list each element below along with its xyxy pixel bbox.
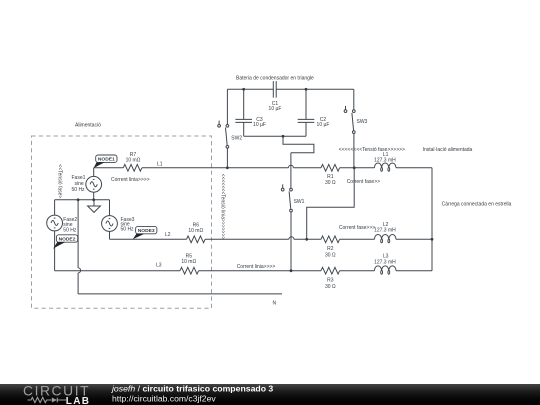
svg-text:10 mΩ: 10 mΩ bbox=[188, 228, 203, 234]
svg-text:10 µF: 10 µF bbox=[253, 122, 266, 128]
svg-text:N: N bbox=[273, 301, 277, 307]
svg-text:SW3: SW3 bbox=[357, 119, 368, 125]
svg-text:<<Tensió fase>: <<Tensió fase> bbox=[57, 164, 63, 198]
svg-text:Corrent fase>>>: Corrent fase>>> bbox=[339, 225, 375, 231]
svg-text:Alimentació: Alimentació bbox=[75, 123, 101, 129]
svg-text:Bateria de condensador en tria: Bateria de condensador en triangle bbox=[236, 75, 314, 81]
svg-text:NODE3: NODE3 bbox=[138, 228, 155, 234]
svg-text:L1: L1 bbox=[157, 162, 163, 168]
svg-text:127.3 mH: 127.3 mH bbox=[374, 157, 396, 163]
svg-text:<<<<<<<<Tensió fase>>>>>>: <<<<<<<<Tensió fase>>>>>> bbox=[339, 147, 405, 153]
svg-text:50 Hz: 50 Hz bbox=[121, 227, 135, 233]
svg-text:127.3 mH: 127.3 mH bbox=[374, 259, 396, 265]
svg-text:10 mΩ: 10 mΩ bbox=[126, 158, 141, 164]
svg-text:30 Ω: 30 Ω bbox=[325, 252, 336, 258]
svg-text:R3: R3 bbox=[327, 277, 334, 283]
svg-text:Corrent linia>>>>: Corrent linia>>>> bbox=[111, 177, 150, 183]
svg-text:LAB: LAB bbox=[66, 396, 90, 405]
svg-text:SW2: SW2 bbox=[231, 135, 242, 141]
svg-text:10 µF: 10 µF bbox=[317, 122, 330, 128]
svg-text:50 Hz: 50 Hz bbox=[72, 187, 86, 193]
svg-text:L3: L3 bbox=[156, 263, 162, 269]
svg-text:30 Ω: 30 Ω bbox=[325, 180, 336, 186]
svg-text:<<<<<<<Tensió linia>>>>>>>: <<<<<<<Tensió linia>>>>>>> bbox=[220, 174, 226, 240]
svg-text:josefh / circuito trifasico co: josefh / circuito trifasico compensado 3 bbox=[111, 384, 273, 394]
svg-text:127.3 mH: 127.3 mH bbox=[374, 227, 396, 233]
svg-text:Corrent fase>>: Corrent fase>> bbox=[347, 179, 380, 185]
svg-text:10 mΩ: 10 mΩ bbox=[181, 259, 196, 265]
svg-text:Càrrega connectada en estrella: Càrrega connectada en estrella bbox=[442, 202, 512, 208]
svg-text:NODE2: NODE2 bbox=[59, 236, 76, 242]
svg-text:10 µF: 10 µF bbox=[269, 106, 282, 112]
svg-text:50 Hz: 50 Hz bbox=[63, 227, 77, 233]
svg-text:R2: R2 bbox=[327, 246, 334, 252]
svg-text:SW1: SW1 bbox=[294, 199, 305, 205]
svg-text:Corrent linia>>>>: Corrent linia>>>> bbox=[237, 264, 276, 270]
svg-text:Instal·lació alimentada: Instal·lació alimentada bbox=[423, 147, 473, 153]
svg-text:NODE1: NODE1 bbox=[98, 157, 115, 163]
svg-text:L2: L2 bbox=[165, 232, 171, 238]
svg-text:30 Ω: 30 Ω bbox=[325, 284, 336, 290]
svg-text:http://circuitlab.com/c3jf2ev: http://circuitlab.com/c3jf2ev bbox=[112, 393, 216, 403]
